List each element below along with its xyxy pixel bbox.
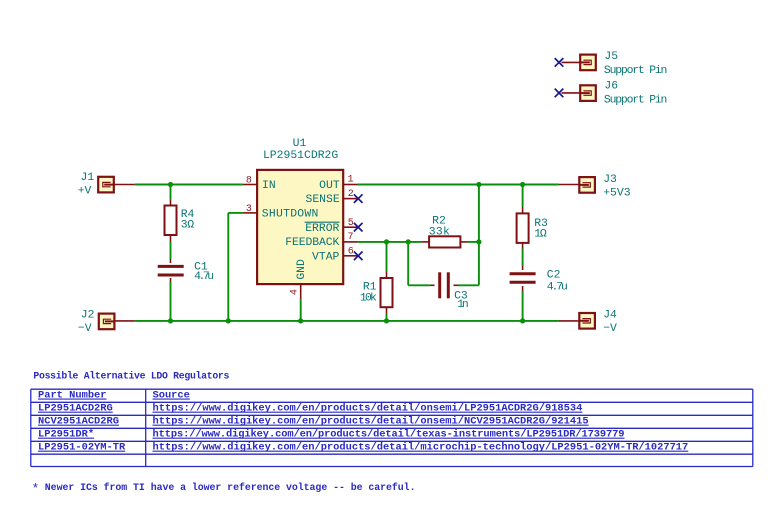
svg-text:LP2951ACD2RG: LP2951ACD2RG: [38, 403, 113, 415]
svg-text:7: 7: [347, 232, 353, 243]
svg-text:LP2951DR*: LP2951DR*: [38, 429, 94, 441]
svg-text:U1: U1: [293, 138, 307, 150]
svg-text:−V: −V: [78, 323, 92, 335]
svg-text:Source: Source: [153, 390, 190, 402]
svg-text:Newer ICs from TI have a lower: Newer ICs from TI have a lower reference…: [45, 482, 416, 493]
svg-text:FEEDBACK: FEEDBACK: [285, 237, 339, 249]
svg-text:−V: −V: [603, 323, 617, 335]
svg-text:1Ω: 1Ω: [534, 229, 547, 241]
svg-text:IN: IN: [262, 180, 276, 192]
svg-text:3: 3: [246, 204, 252, 215]
svg-text:4: 4: [290, 289, 301, 295]
svg-text:J5: J5: [604, 51, 618, 63]
svg-text:+5V3: +5V3: [603, 188, 631, 200]
svg-text:ERROR: ERROR: [305, 223, 339, 235]
svg-text:10k: 10k: [360, 293, 377, 305]
svg-text:J1: J1: [81, 172, 95, 184]
svg-text:Possible Alternative LDO Regul: Possible Alternative LDO Regulators: [33, 370, 229, 381]
svg-text:Part Number: Part Number: [38, 390, 107, 402]
svg-text:LP2951CDR2G: LP2951CDR2G: [263, 150, 338, 162]
svg-text:J4: J4: [603, 310, 617, 322]
svg-text:3Ω: 3Ω: [181, 219, 195, 231]
svg-text:VTAP: VTAP: [312, 251, 340, 263]
svg-text:8: 8: [246, 175, 252, 186]
svg-text:1: 1: [347, 174, 353, 185]
svg-text:OUT: OUT: [319, 180, 340, 192]
svg-text:SHUTDOWN: SHUTDOWN: [262, 209, 319, 221]
svg-text:https://www.digikey.com/en/pro: https://www.digikey.com/en/products/deta…: [153, 403, 583, 415]
svg-text:Support Pin: Support Pin: [604, 65, 668, 77]
svg-text:GND: GND: [296, 259, 308, 280]
svg-text:https://www.digikey.com/en/pro: https://www.digikey.com/en/products/deta…: [153, 429, 625, 441]
svg-text:1n: 1n: [457, 299, 469, 311]
svg-text:5: 5: [348, 218, 354, 229]
svg-text:J6: J6: [604, 80, 618, 92]
svg-text:4.7u: 4.7u: [547, 282, 568, 294]
svg-text:LP2951-02YM-TR: LP2951-02YM-TR: [38, 442, 126, 454]
svg-text:6: 6: [348, 246, 354, 257]
svg-text:J2: J2: [81, 310, 95, 322]
svg-text:https://www.digikey.com/en/pro: https://www.digikey.com/en/products/deta…: [153, 416, 589, 428]
svg-text:C2: C2: [547, 270, 561, 282]
svg-text:*: *: [32, 482, 40, 497]
svg-text:2: 2: [348, 189, 354, 200]
svg-text:NCV2951ACD2RG: NCV2951ACD2RG: [38, 416, 119, 428]
svg-text:4.7u: 4.7u: [194, 271, 214, 283]
svg-text:https://www.digikey.com/en/pro: https://www.digikey.com/en/products/deta…: [153, 442, 689, 454]
svg-text:J3: J3: [603, 174, 617, 186]
svg-text:+V: +V: [78, 186, 92, 198]
svg-text:Support Pin: Support Pin: [604, 95, 668, 107]
svg-text:33k: 33k: [429, 227, 450, 239]
svg-text:SENSE: SENSE: [306, 194, 340, 206]
